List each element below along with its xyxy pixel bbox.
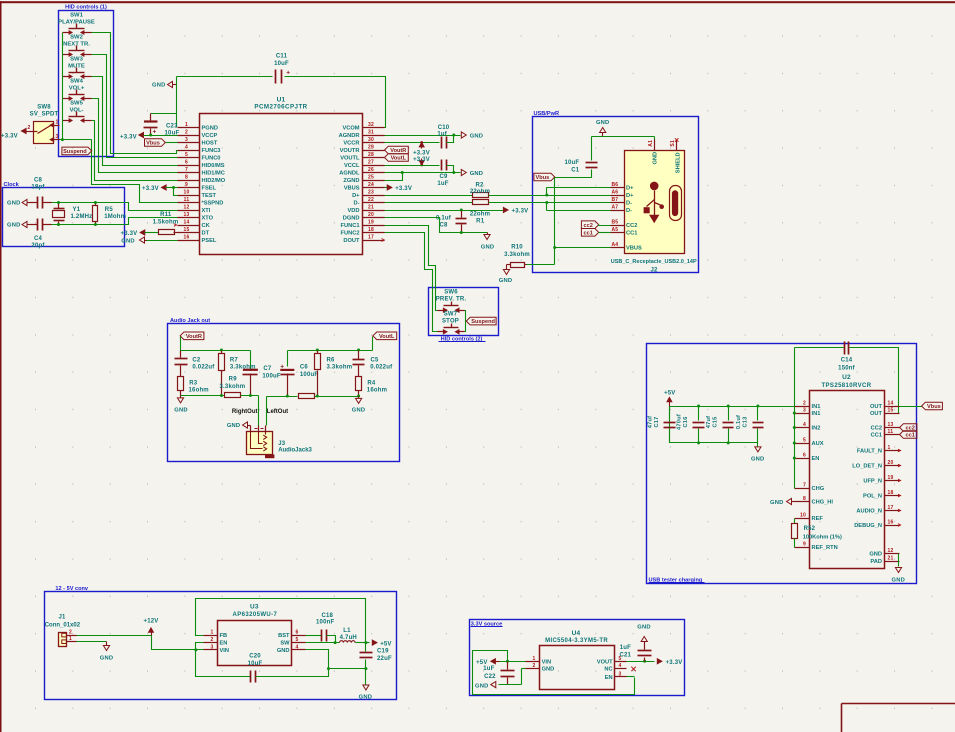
svg-text:B6: B6: [612, 182, 619, 188]
svg-text:VoutR: VoutR: [186, 334, 202, 340]
svg-text:18: 18: [368, 227, 374, 233]
svg-text:+: +: [286, 69, 290, 76]
svg-text:R11: R11: [160, 212, 172, 218]
svg-text:2: 2: [533, 663, 536, 669]
svg-text:GND: GND: [174, 408, 187, 414]
svg-text:U2: U2: [842, 374, 851, 381]
svg-text:+: +: [153, 129, 157, 136]
svg-text:10: 10: [184, 190, 190, 196]
svg-text:47uf: 47uf: [706, 416, 712, 429]
svg-text:16: 16: [184, 235, 190, 241]
svg-text:PCM2706CPJTR: PCM2706CPJTR: [254, 104, 307, 111]
svg-text:Vbus: Vbus: [927, 404, 941, 410]
svg-text:4: 4: [296, 645, 299, 651]
svg-text:12: 12: [184, 205, 190, 211]
svg-text:SW6: SW6: [444, 290, 458, 296]
svg-text:OUT: OUT: [870, 411, 883, 417]
svg-text:8: 8: [803, 496, 806, 502]
svg-text:2: 2: [185, 130, 188, 136]
svg-text:6: 6: [185, 160, 188, 166]
svg-text:15: 15: [888, 408, 894, 414]
svg-text:+3.3V: +3.3V: [142, 186, 159, 192]
svg-text:GND: GND: [121, 239, 134, 245]
svg-text:+3.3V: +3.3V: [120, 135, 137, 141]
svg-text:VOUTR: VOUTR: [340, 148, 360, 154]
svg-text:SW1: SW1: [70, 13, 83, 19]
svg-text:R10: R10: [511, 245, 523, 251]
svg-text:HOST: HOST: [202, 141, 218, 147]
svg-text:C10: C10: [438, 125, 450, 131]
svg-text:REF_RTN: REF_RTN: [812, 545, 838, 551]
svg-text:10uF: 10uF: [564, 160, 579, 166]
svg-text:C14: C14: [841, 358, 853, 364]
svg-text:U1: U1: [277, 97, 286, 104]
svg-text:1Mohm: 1Mohm: [104, 214, 126, 220]
svg-text:24: 24: [368, 182, 374, 188]
svg-text:GND: GND: [869, 552, 882, 558]
svg-text:VCCP: VCCP: [202, 133, 218, 139]
svg-text:18pf: 18pf: [31, 185, 45, 191]
svg-text:PGND: PGND: [202, 126, 218, 132]
svg-text:C8: C8: [34, 178, 43, 184]
svg-text:27: 27: [368, 160, 374, 166]
svg-text:2: 2: [28, 125, 31, 131]
svg-text:A4: A4: [612, 242, 619, 248]
svg-text:C7: C7: [263, 366, 272, 372]
svg-text:IN2: IN2: [812, 426, 821, 432]
svg-text:HID2/MO: HID2/MO: [202, 178, 226, 184]
svg-text:GND: GND: [227, 423, 240, 429]
svg-text:FUNC2: FUNC2: [341, 231, 360, 237]
svg-text:1: 1: [185, 122, 188, 128]
svg-text:17: 17: [888, 505, 894, 511]
svg-text:22: 22: [368, 197, 374, 203]
svg-text:1uF: 1uF: [620, 645, 631, 651]
svg-text:+3.3V: +3.3V: [395, 186, 412, 192]
svg-text:6: 6: [296, 630, 299, 636]
svg-text:5: 5: [803, 438, 806, 444]
svg-text:GND: GND: [653, 152, 659, 165]
svg-text:Suspend: Suspend: [471, 319, 495, 325]
svg-text:8: 8: [185, 175, 188, 181]
svg-text:4: 4: [619, 663, 622, 669]
svg-text:18: 18: [888, 490, 894, 496]
svg-text:FUNC0: FUNC0: [202, 156, 221, 162]
svg-text:1uf: 1uf: [437, 132, 447, 138]
svg-text:D+: D+: [626, 193, 634, 199]
svg-text:VCOM: VCOM: [342, 126, 359, 132]
svg-text:VoutL: VoutL: [379, 334, 395, 340]
svg-text:C13: C13: [742, 416, 748, 427]
svg-text:+3.3V: +3.3V: [1, 133, 18, 139]
svg-text:IN1: IN1: [812, 404, 821, 410]
svg-text:FB: FB: [220, 633, 228, 639]
svg-text:10: 10: [800, 513, 806, 519]
svg-text:DOUT: DOUT: [343, 238, 360, 244]
svg-text:3: 3: [185, 137, 188, 143]
svg-text:1: 1: [69, 636, 72, 642]
svg-text:1: 1: [888, 445, 891, 451]
svg-text:28: 28: [368, 152, 374, 158]
svg-text:0.022uf: 0.022uf: [192, 365, 215, 371]
svg-text:47uf: 47uf: [648, 416, 654, 429]
svg-text:RightOut: RightOut: [232, 409, 258, 415]
svg-text:6: 6: [803, 453, 806, 459]
svg-text:+5V: +5V: [476, 660, 487, 666]
svg-text:FAULT_N: FAULT_N: [857, 449, 882, 455]
svg-text:SW3: SW3: [70, 57, 83, 63]
svg-text:A7: A7: [612, 205, 619, 211]
svg-text:TEST: TEST: [202, 193, 217, 199]
svg-text:150nf: 150nf: [838, 365, 855, 371]
svg-text:20: 20: [888, 460, 894, 466]
svg-text:HID1/MC: HID1/MC: [202, 171, 225, 177]
svg-text:GND: GND: [596, 120, 609, 126]
svg-text:7: 7: [185, 167, 188, 173]
svg-text:100nF: 100nF: [316, 620, 334, 626]
svg-text:DEBUG_N: DEBUG_N: [854, 523, 882, 529]
svg-text:4: 4: [185, 145, 188, 151]
svg-text:C23: C23: [166, 124, 178, 130]
svg-text:C19: C19: [377, 649, 389, 655]
svg-text:+3.3V: +3.3V: [512, 209, 529, 215]
svg-text:VIN: VIN: [542, 659, 551, 665]
svg-text:1: 1: [533, 656, 536, 662]
svg-text:EN: EN: [605, 675, 613, 681]
svg-text:+12V: +12V: [144, 619, 159, 625]
svg-text:1: 1: [56, 119, 59, 125]
svg-text:GND: GND: [352, 408, 365, 414]
svg-text:5: 5: [185, 152, 188, 158]
svg-text:DT: DT: [202, 231, 210, 237]
svg-text:2: 2: [211, 637, 214, 643]
svg-text:VOUT: VOUT: [597, 659, 613, 665]
svg-text:AGNDR: AGNDR: [339, 133, 360, 139]
svg-text:4.7uH: 4.7uH: [340, 635, 357, 641]
svg-text:GND: GND: [470, 133, 483, 139]
svg-text:25: 25: [368, 175, 374, 181]
svg-text:12 - 5V conv: 12 - 5V conv: [55, 586, 89, 592]
svg-text:1uF: 1uF: [437, 181, 448, 187]
svg-text:16ohm: 16ohm: [189, 387, 209, 393]
svg-text:C15: C15: [713, 416, 719, 427]
svg-text:29: 29: [368, 145, 374, 151]
svg-text:AUDIO_N: AUDIO_N: [856, 509, 882, 515]
svg-text:GND: GND: [770, 500, 783, 506]
svg-text:*SSPND: *SSPND: [202, 201, 224, 207]
svg-text:Vbus: Vbus: [146, 141, 160, 147]
svg-text:FUNC3: FUNC3: [202, 148, 221, 154]
svg-text:PAD: PAD: [870, 559, 882, 565]
svg-text:GND: GND: [277, 648, 290, 654]
svg-text:3.3kohm: 3.3kohm: [220, 384, 246, 390]
svg-text:CC1: CC1: [871, 433, 882, 439]
svg-text:GND: GND: [475, 683, 488, 689]
svg-text:+5V: +5V: [664, 391, 675, 397]
svg-text:+3.3V: +3.3V: [413, 151, 430, 157]
svg-text:30: 30: [368, 137, 374, 143]
svg-text:21: 21: [888, 556, 894, 562]
svg-text:3: 3: [619, 671, 622, 677]
svg-text:15: 15: [184, 227, 190, 233]
svg-text:BST: BST: [278, 633, 290, 639]
svg-text:XTO: XTO: [202, 216, 214, 222]
svg-text:C20: C20: [249, 653, 261, 659]
svg-text:R4: R4: [367, 380, 376, 386]
svg-text:R1: R1: [476, 218, 485, 224]
svg-text:AGNDL: AGNDL: [339, 171, 360, 177]
svg-text:L1: L1: [343, 628, 351, 634]
svg-text:1.5kohm: 1.5kohm: [153, 219, 179, 225]
svg-text:CHG_HI: CHG_HI: [812, 500, 834, 506]
svg-text:D-: D-: [353, 201, 359, 207]
svg-text:SHIELD: SHIELD: [675, 152, 681, 173]
svg-text:VCCL: VCCL: [344, 163, 360, 169]
svg-text:ZGND: ZGND: [343, 178, 359, 184]
svg-text:U3: U3: [250, 604, 259, 611]
svg-text:7: 7: [803, 483, 806, 489]
svg-text:C22: C22: [484, 674, 496, 680]
svg-text:SW8: SW8: [37, 104, 51, 110]
svg-text:EN: EN: [812, 456, 820, 462]
svg-text:+5V: +5V: [380, 641, 391, 647]
svg-text:CHG: CHG: [812, 486, 825, 492]
svg-text:16ohm: 16ohm: [367, 387, 387, 393]
svg-text:3: 3: [56, 134, 59, 140]
svg-text:20: 20: [368, 212, 374, 218]
svg-text:32: 32: [368, 122, 374, 128]
svg-text:C21: C21: [619, 653, 631, 659]
svg-text:TPS25810RVCR: TPS25810RVCR: [821, 383, 871, 389]
svg-text:B7: B7: [612, 197, 619, 203]
svg-text:13: 13: [888, 422, 894, 428]
svg-text:CC1: CC1: [626, 231, 637, 237]
svg-text:LO_DET_N: LO_DET_N: [852, 464, 882, 470]
svg-text:1uF: 1uF: [483, 666, 494, 672]
svg-text:19: 19: [888, 475, 894, 481]
svg-text:9: 9: [803, 542, 806, 548]
svg-text:GND: GND: [751, 457, 764, 463]
svg-text:16: 16: [888, 520, 894, 526]
svg-text:CC2: CC2: [871, 426, 882, 432]
svg-text:C6: C6: [300, 365, 309, 371]
svg-text:26: 26: [368, 167, 374, 173]
svg-text:CC2: CC2: [626, 223, 637, 229]
svg-text:0.1uf: 0.1uf: [736, 415, 742, 429]
svg-text:10uF: 10uF: [274, 61, 289, 67]
svg-text:OUT: OUT: [870, 404, 883, 410]
svg-text:VBUS: VBUS: [626, 246, 642, 252]
svg-text:DGND: DGND: [343, 216, 360, 222]
svg-text:LeftOut: LeftOut: [267, 409, 288, 415]
svg-text:GND: GND: [637, 624, 650, 630]
svg-text:VIN: VIN: [220, 648, 229, 654]
svg-text:GND: GND: [542, 667, 555, 673]
svg-text:R6: R6: [327, 358, 336, 364]
svg-text:GND: GND: [152, 83, 165, 89]
svg-text:C9: C9: [439, 174, 448, 180]
svg-text:100uF: 100uF: [262, 373, 280, 379]
svg-text:VBUS: VBUS: [344, 186, 360, 192]
svg-text:XTI: XTI: [202, 208, 211, 214]
svg-text:R7: R7: [230, 358, 239, 364]
svg-text:HID controls (1): HID controls (1): [65, 5, 107, 11]
svg-text:GND: GND: [100, 656, 113, 662]
svg-text:3.3kohm: 3.3kohm: [504, 252, 530, 258]
svg-text:Conn_01x02: Conn_01x02: [45, 622, 81, 628]
svg-text:+3.3V: +3.3V: [121, 231, 138, 237]
svg-text:31: 31: [368, 130, 374, 136]
svg-text:J3: J3: [278, 441, 286, 447]
svg-text:SW4: SW4: [70, 79, 83, 85]
svg-text:100uF: 100uF: [300, 372, 318, 378]
svg-text:SV_SPDT: SV_SPDT: [30, 111, 59, 117]
svg-text:GND: GND: [7, 223, 20, 229]
svg-text:13: 13: [184, 212, 190, 218]
svg-text:14: 14: [184, 220, 190, 226]
svg-text:0.022uf: 0.022uf: [370, 365, 393, 371]
svg-text:FSEL: FSEL: [202, 186, 217, 192]
svg-text:5: 5: [296, 637, 299, 643]
svg-text:STOP: STOP: [442, 319, 459, 325]
svg-text:cc2: cc2: [583, 223, 592, 229]
svg-text:PSEL: PSEL: [202, 238, 217, 244]
svg-text:4: 4: [803, 422, 806, 428]
svg-text:POL_N: POL_N: [863, 494, 882, 500]
svg-text:0.1uf: 0.1uf: [436, 216, 452, 222]
svg-text:20pf: 20pf: [31, 243, 45, 249]
svg-text:A5: A5: [612, 227, 619, 233]
svg-text:REF: REF: [812, 516, 824, 522]
svg-text:R3: R3: [189, 380, 198, 386]
svg-text:IN1: IN1: [812, 411, 821, 417]
svg-text:AP63205WU-7: AP63205WU-7: [233, 612, 278, 618]
svg-text:470uf: 470uf: [677, 414, 683, 430]
svg-text:9: 9: [185, 182, 188, 188]
svg-text:SW2: SW2: [70, 35, 83, 41]
svg-text:R2: R2: [475, 183, 484, 189]
svg-text:D+: D+: [626, 186, 634, 192]
svg-text:C17: C17: [654, 416, 660, 427]
svg-text:+3.3V: +3.3V: [413, 157, 430, 163]
svg-text:SW: SW: [280, 641, 290, 647]
svg-text:VoutL: VoutL: [391, 156, 407, 162]
svg-text:A1: A1: [648, 140, 654, 147]
svg-text:GND: GND: [892, 578, 905, 584]
svg-text:S1: S1: [670, 140, 676, 147]
svg-text:C16: C16: [683, 416, 689, 427]
svg-text:3.3kohm: 3.3kohm: [327, 365, 353, 371]
svg-text:22uF: 22uF: [377, 656, 392, 662]
svg-text:cc1: cc1: [583, 230, 592, 236]
svg-text:2: 2: [803, 401, 806, 407]
svg-text:C5: C5: [371, 358, 380, 364]
svg-text:NC: NC: [604, 667, 612, 673]
svg-text:C4: C4: [34, 236, 43, 242]
svg-text:D-: D-: [626, 201, 632, 207]
svg-text:J1: J1: [58, 615, 66, 621]
svg-text:22ohm: 22ohm: [470, 189, 490, 195]
svg-text:GND: GND: [470, 171, 483, 177]
svg-text:23: 23: [368, 190, 374, 196]
svg-text:U4: U4: [572, 630, 581, 637]
svg-text:VCCR: VCCR: [343, 141, 359, 147]
svg-text:SW5: SW5: [70, 101, 83, 107]
svg-text:C2: C2: [192, 358, 201, 364]
svg-text:C8: C8: [439, 223, 448, 229]
svg-text:100Kohm (1%): 100Kohm (1%): [803, 534, 842, 540]
svg-text:AUX: AUX: [812, 441, 824, 447]
svg-text:VOUTL: VOUTL: [340, 156, 360, 162]
svg-text:R52: R52: [804, 526, 816, 532]
svg-text:GND: GND: [359, 694, 372, 700]
svg-text:22ohm: 22ohm: [470, 212, 490, 218]
svg-text:10uF: 10uF: [248, 661, 263, 667]
svg-text:C18: C18: [321, 613, 333, 619]
svg-text:J2: J2: [650, 267, 658, 273]
svg-text:FUNC1: FUNC1: [341, 223, 360, 229]
svg-text:3: 3: [803, 408, 806, 414]
svg-text:R9: R9: [229, 376, 238, 382]
svg-text:1: 1: [211, 630, 214, 636]
svg-text:GND: GND: [481, 245, 494, 251]
svg-text:R5: R5: [105, 207, 114, 213]
svg-text:11: 11: [888, 429, 894, 435]
svg-text:14: 14: [888, 401, 894, 407]
svg-text:12: 12: [888, 548, 894, 554]
svg-text:1.2MHz: 1.2MHz: [71, 214, 93, 220]
svg-text:GND: GND: [7, 201, 20, 207]
svg-text:D-: D-: [626, 208, 632, 214]
svg-text:B5: B5: [612, 220, 619, 226]
svg-text:Y1: Y1: [73, 207, 81, 213]
svg-text:AudioJack3: AudioJack3: [278, 448, 312, 454]
svg-text:VDD: VDD: [347, 208, 359, 214]
svg-text:3: 3: [211, 645, 214, 651]
svg-text:USB_C_Receptacle_USB2.0_14P: USB_C_Receptacle_USB2.0_14P: [611, 259, 697, 265]
svg-text:UFP_N: UFP_N: [863, 479, 882, 485]
svg-text:cc1: cc1: [905, 433, 914, 439]
svg-text:A6: A6: [612, 190, 619, 196]
svg-text:Vbus: Vbus: [536, 175, 550, 181]
svg-text:21: 21: [368, 205, 374, 211]
svg-text:19: 19: [368, 220, 374, 226]
svg-text:HID0/MS: HID0/MS: [202, 163, 225, 169]
svg-text:C11: C11: [276, 54, 288, 60]
svg-text:C1: C1: [571, 168, 580, 174]
svg-text:Suspend: Suspend: [63, 149, 87, 155]
svg-text:MIC5504-3.3YM5-TR: MIC5504-3.3YM5-TR: [545, 638, 608, 644]
svg-text:11: 11: [184, 197, 190, 203]
svg-text:D+: D+: [352, 193, 360, 199]
svg-text:SW7: SW7: [444, 312, 458, 318]
svg-text:2: 2: [69, 629, 72, 635]
svg-text:EN: EN: [220, 641, 228, 647]
svg-text:+3.3V: +3.3V: [666, 660, 683, 666]
svg-text:GND: GND: [499, 278, 512, 284]
svg-text:17: 17: [368, 235, 374, 241]
svg-text:CK: CK: [202, 223, 211, 229]
